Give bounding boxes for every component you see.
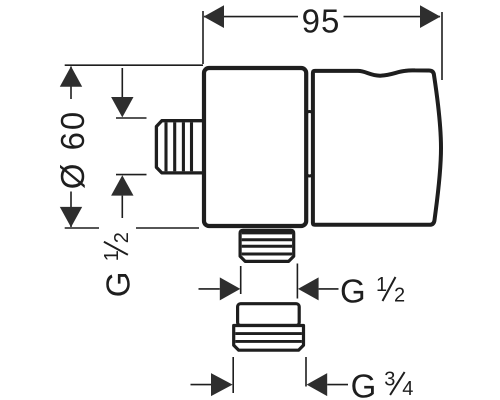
main body — [204, 68, 306, 226]
bottom outlet thread line 2 — [242, 245, 292, 248]
thread G1/2 left: top tick line — [116, 117, 147, 119]
fitting dimension: left-pointing arrowhead — [307, 373, 328, 396]
fitting dimension: right extension line — [305, 357, 307, 387]
dimension D60: top extension line — [65, 64, 203, 66]
left connector thread line 1 — [164, 122, 167, 171]
dimension 95: right arrowhead — [420, 5, 440, 28]
svg-text:G: G — [99, 272, 136, 298]
svg-text:Ø 60: Ø 60 — [54, 110, 91, 190]
outlet dimension: right-pointing arrowhead — [220, 277, 241, 300]
fitting dimension: left extension line — [232, 357, 234, 393]
thread G1/2 left: rotated label G 1/2 — [99, 232, 136, 297]
dimension D60: bottom extension line right part — [136, 227, 199, 229]
svg-text:3: 3 — [384, 369, 395, 391]
fitting thread line 1 — [235, 332, 302, 335]
outlet dimension: label G 1/2 — [340, 273, 405, 310]
dimension D60: up arrowhead — [60, 66, 82, 86]
dimension 95: left arrowhead — [204, 5, 224, 28]
dimension D60: vertical line upper segment — [70, 67, 72, 100]
connector tab between body and cover — [306, 112, 314, 177]
svg-text:1: 1 — [376, 274, 387, 296]
dimension D60: bottom extension line left part — [65, 227, 99, 229]
dimension 95: right extension line — [441, 12, 443, 80]
dimension D60: vertical line lower segment — [70, 192, 72, 228]
svg-text:G: G — [340, 273, 366, 310]
fitting thread line 2 — [235, 340, 302, 343]
svg-text:2: 2 — [111, 232, 133, 243]
thread G1/2 left: lower stem — [121, 196, 123, 218]
outlet dimension: right extension line — [296, 264, 298, 299]
outlet dimension: left extension line — [240, 266, 242, 294]
fitting dimension: label G 3/4 — [351, 368, 414, 400]
dimension D60: value label rotated — [54, 110, 91, 190]
bottom outlet thread line 0 — [242, 232, 292, 235]
left connector thread line 4 — [190, 122, 193, 171]
outlet dimension: right stem — [319, 288, 339, 290]
svg-text:1: 1 — [101, 250, 123, 261]
thread G1/2 left: upper stem — [121, 68, 123, 98]
left connector thread line 2 — [173, 122, 176, 171]
svg-text:95: 95 — [302, 2, 341, 39]
bottom outlet thread line 3 — [242, 253, 292, 256]
fitting dimension: right-pointing arrowhead — [211, 373, 233, 396]
left connector thread line 3 — [182, 122, 185, 171]
fitting dimension: left stem — [191, 384, 212, 386]
cover (right part) — [313, 70, 441, 224]
outlet dimension: left-pointing arrowhead — [298, 277, 319, 300]
svg-text:4: 4 — [402, 378, 413, 400]
dimension 95: left extension line — [202, 11, 204, 64]
dimension 95: line right segment — [344, 16, 441, 18]
fitting dimension: right stem — [327, 384, 348, 386]
svg-text:2: 2 — [394, 284, 405, 306]
fitting G3/4: lower threaded section — [234, 326, 304, 351]
thread G1/2 left: up arrowhead — [111, 175, 133, 195]
svg-text:G: G — [351, 368, 377, 400]
dimension D60: down arrowhead — [60, 207, 82, 227]
fitting G3/4: upper section — [238, 304, 300, 326]
outlet dimension: left stem — [199, 288, 220, 290]
bottom outlet G1/2 body — [240, 230, 294, 261]
dimension 95: line left segment — [204, 16, 298, 18]
thread G1/2 left: bottom tick line — [116, 174, 147, 176]
left connector G1/2 body — [156, 121, 204, 173]
bottom outlet thread line 1 — [242, 238, 292, 241]
thread G1/2 left: down arrowhead — [111, 97, 133, 117]
